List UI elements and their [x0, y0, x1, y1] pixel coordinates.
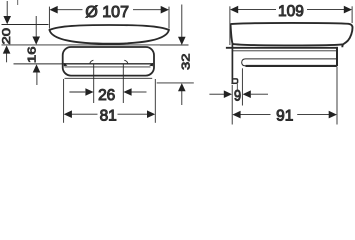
dim 109: extension line right — [351, 6, 353, 23]
dim 81: line stubs — [71, 113, 97, 115]
support plate top line — [226, 47, 338, 49]
dim 16: top arrow — [32, 37, 40, 45]
dim 91: right arrow — [329, 111, 337, 119]
dim 81: extension line right — [154, 79, 156, 123]
dim O107: left arrow — [50, 6, 58, 14]
dim 32: bottom arrow — [178, 83, 186, 91]
dim 91: line stubs — [240, 114, 271, 116]
holder right clip wedge — [149, 63, 153, 66]
dim O107: extension line left — [48, 7, 50, 29]
holder rounded rect — [63, 47, 154, 76]
bowl front: top rim — [50, 25, 169, 30]
wall plate foot edge extension — [236, 84, 238, 90]
dim 9: left arrow — [224, 90, 232, 98]
svg-text:81: 81 — [100, 108, 117, 125]
dim 9: right stem — [251, 93, 268, 95]
dim 81: extension line left — [63, 79, 65, 123]
dim 16: bottom arrow — [33, 64, 41, 72]
svg-text:26: 26 — [98, 87, 115, 104]
dim 26: left stem — [69, 91, 85, 93]
svg-text:20: 20 — [0, 28, 13, 45]
dim 20: bottom stem — [6, 52, 8, 62]
dim 9: extension line left (below wall plate) — [231, 85, 233, 125]
holder left clip wedge — [64, 63, 68, 66]
holder inner thin line under bottom — [65, 77, 153, 79]
dim O107: right arrow — [161, 6, 169, 14]
dim 20: top arrow — [3, 16, 11, 24]
wire: extension line at holder inner level — [14, 63, 63, 65]
dim 26: left arrow — [85, 88, 93, 96]
support plate second line — [233, 50, 337, 52]
arm left end cap — [242, 59, 246, 66]
dim 9: extension line right (below arm cap) — [241, 68, 243, 105]
dim O107: extension line right — [168, 7, 170, 29]
bowl side profile — [231, 23, 353, 47]
svg-text:16: 16 — [26, 46, 39, 63]
foot curl left — [90, 60, 94, 64]
dim 109: right arrow — [344, 6, 352, 14]
foot curl right — [124, 60, 128, 64]
dim 91: left arrow — [232, 111, 240, 119]
stray crop mark — [17, 0, 19, 5]
dim 32: top extension stub — [160, 44, 189, 46]
dim 32: bottom stem — [181, 90, 183, 106]
dim 9: right arrow — [243, 90, 251, 98]
dim 16: bottom stem — [36, 71, 38, 85]
wall plate foot — [231, 79, 237, 83]
dim 32: top stem — [181, 5, 183, 39]
wire: extension line at bowl bottom level (runs to 32-dim stub) — [2, 44, 189, 46]
dim 16: top stem — [35, 16, 37, 38]
dim 26: extension line left — [93, 64, 95, 103]
dim 20: bottom arrow — [3, 45, 11, 53]
dim 81: left arrow — [64, 110, 72, 118]
dim 109: left arrow — [230, 6, 238, 14]
holder inner second line — [65, 66, 151, 68]
dim O107: line stubs — [57, 9, 83, 11]
dim 109: line stubs — [238, 9, 277, 11]
svg-text:Ø 107: Ø 107 — [85, 4, 129, 21]
holder inner line — [64, 63, 154, 65]
wire: extension line at bowl top level — [2, 24, 49, 26]
arm bottom line — [246, 65, 337, 67]
svg-text:9: 9 — [234, 87, 241, 104]
svg-text:91: 91 — [276, 108, 293, 125]
dim 26: right stem — [132, 91, 147, 93]
dim 26: right arrow — [123, 88, 131, 96]
dim 9: left stem — [209, 93, 224, 95]
dim 109: extension line left — [229, 6, 231, 45]
plate right edge — [336, 47, 338, 66]
dim 32: bottom extension stub — [157, 82, 194, 84]
svg-text:32: 32 — [180, 53, 193, 70]
dim 81: right arrow — [147, 110, 155, 118]
dim 26: extension line right — [122, 64, 124, 103]
dim 20: top stem — [6, 1, 8, 17]
svg-text:109: 109 — [278, 3, 304, 20]
wall plate vertical line — [231, 43, 233, 82]
bowl front: bottom — [50, 30, 169, 44]
dim 32: top arrow — [178, 37, 186, 45]
dim 91: extension line right — [336, 67, 338, 125]
arm top line — [246, 58, 337, 60]
